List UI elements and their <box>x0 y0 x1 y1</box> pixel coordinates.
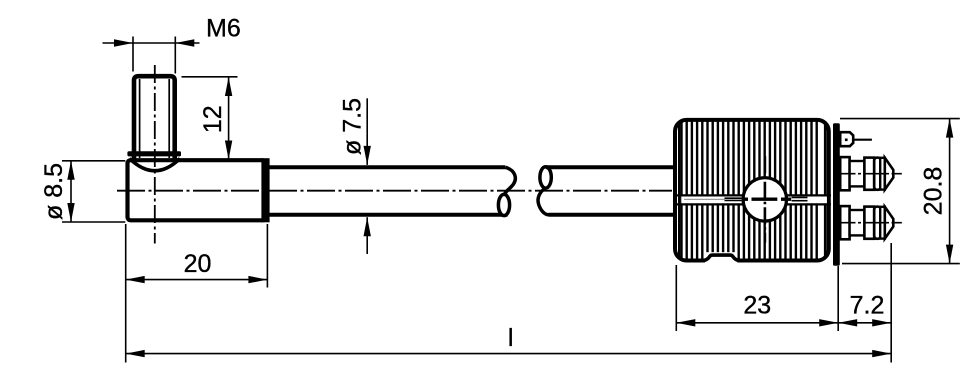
svg-text:23: 23 <box>743 292 771 320</box>
shaft right piece top edge <box>546 165 676 169</box>
stud vertical centerline <box>154 65 156 244</box>
dimension l overall <box>126 353 892 355</box>
slot band boundary lines <box>677 194 831 196</box>
svg-text:l: l <box>508 324 514 352</box>
lower plug contact <box>836 206 902 239</box>
stud base flange <box>127 151 181 156</box>
svg-text:20.8: 20.8 <box>920 167 948 216</box>
break symbol right S-curve <box>538 188 549 215</box>
screw vertical centerline <box>764 156 767 243</box>
bottom notch outline <box>703 255 741 261</box>
stud thread root line left <box>139 79 141 158</box>
svg-text:ø 7.5: ø 7.5 <box>339 98 367 155</box>
dimension 20 <box>126 224 268 363</box>
break symbol right loop <box>540 167 551 188</box>
clamp screw circle <box>743 178 786 221</box>
small top pin <box>840 132 853 146</box>
svg-text:20: 20 <box>184 250 212 278</box>
small pin center dot <box>845 139 848 142</box>
svg-text:ø 8.5: ø 8.5 <box>40 163 68 220</box>
dimension dia 7.5 <box>366 98 368 254</box>
dimension 23 and 7.2 <box>676 243 891 363</box>
body cylinder <box>128 160 266 220</box>
body right end thick edge <box>261 158 269 222</box>
dome arc under stud <box>130 159 181 171</box>
svg-text:M6: M6 <box>206 15 241 43</box>
upper plug contact <box>836 157 902 190</box>
slit double line right of screw <box>792 197 808 199</box>
clamp slot band <box>681 196 827 203</box>
dimension 20.8 <box>840 119 960 264</box>
screw slot thick line segments <box>742 197 748 200</box>
main horizontal centerline <box>117 190 672 192</box>
stud thread root line right <box>168 79 170 158</box>
dimension M6 <box>103 37 200 74</box>
shaft left piece top edge <box>268 165 505 169</box>
svg-text:12: 12 <box>199 105 227 133</box>
M6 threaded stud outline <box>134 76 175 162</box>
slit double line left of screw <box>725 197 742 199</box>
shaft right piece bottom edge <box>549 213 677 217</box>
break symbol left S-curve <box>504 167 515 195</box>
dimension 12 <box>182 77 238 160</box>
svg-text:7.2: 7.2 <box>850 292 885 320</box>
bottom notch cutout <box>705 252 737 266</box>
break symbol left loop <box>498 194 509 215</box>
slit faint line left <box>684 198 725 200</box>
small pin wire <box>853 139 872 141</box>
inner right wall bar <box>824 122 827 259</box>
shaft left piece bottom edge <box>268 213 508 217</box>
connector end plate <box>833 123 840 266</box>
dimension dia 8.5 <box>62 161 125 222</box>
knurling ribs <box>679 118 817 262</box>
connector housing body <box>675 118 829 262</box>
